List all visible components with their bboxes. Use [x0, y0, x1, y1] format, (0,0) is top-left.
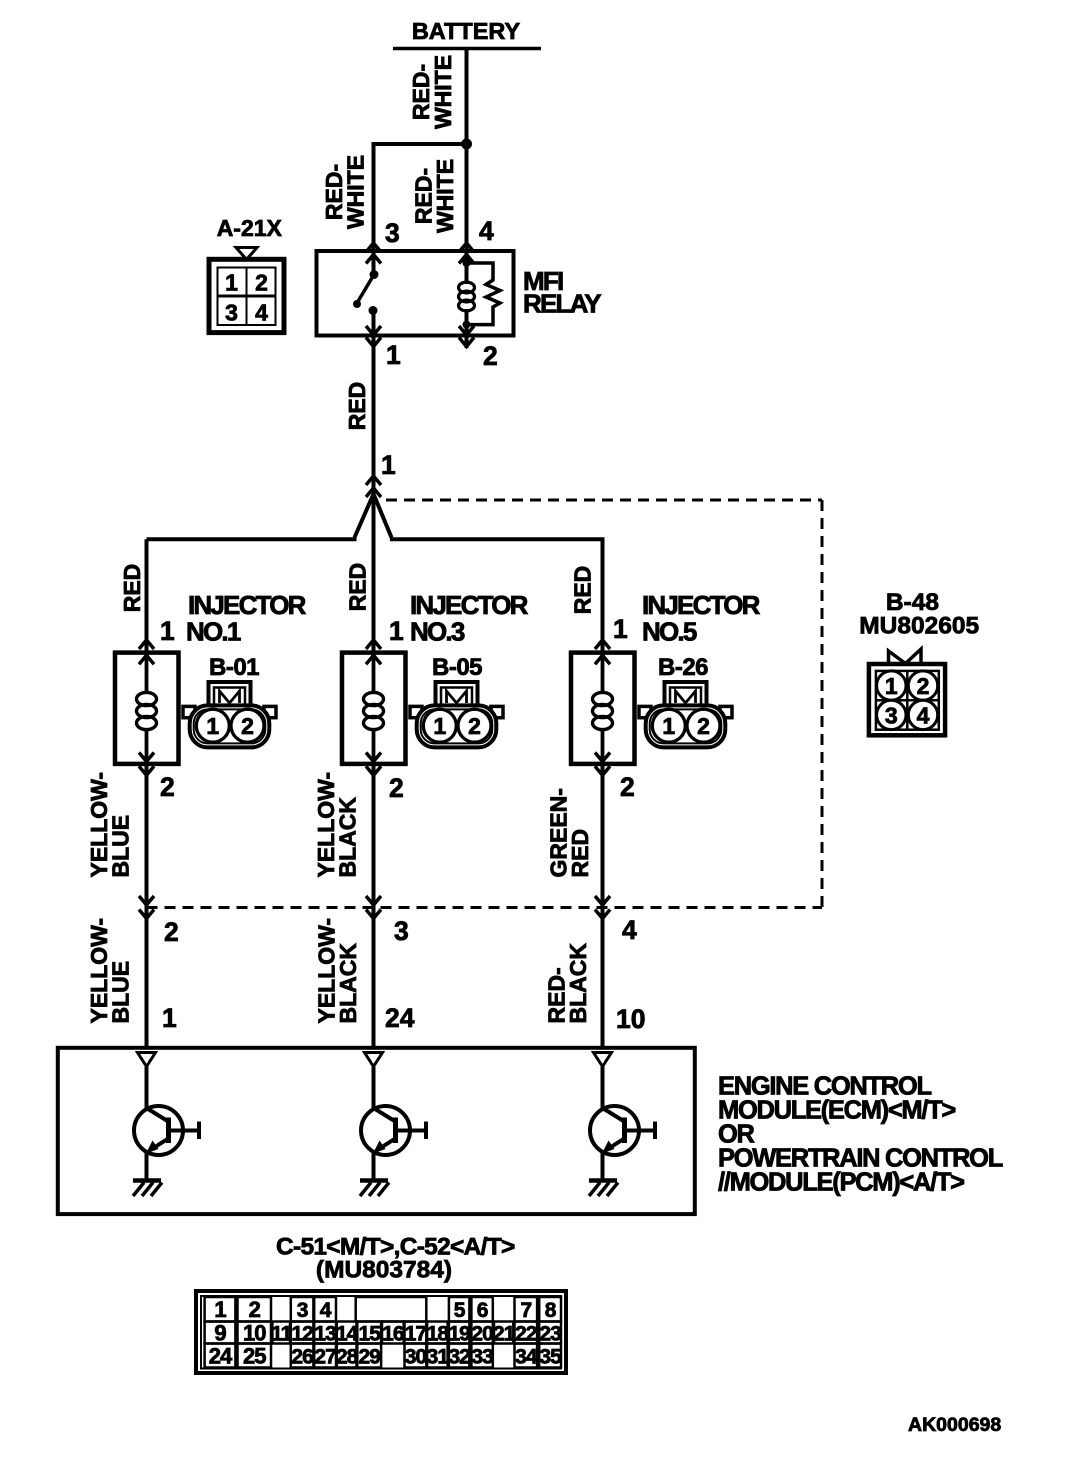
connector B-48 body [869, 664, 945, 735]
svg-text:22: 22 [515, 1322, 537, 1345]
dashed boundary top edge [386, 499, 822, 502]
wire label RED-WHITE (pin 4 branch) [411, 159, 459, 233]
svg-text:2: 2 [483, 341, 498, 371]
connector B-48 pin 2 [908, 671, 937, 700]
arrow into relay pin 3 [366, 243, 381, 264]
arrow out of relay pin 2 [459, 326, 474, 348]
splice branch diagonal right [374, 494, 392, 538]
svg-text:RED: RED [345, 563, 371, 612]
svg-text:1: 1 [386, 340, 401, 370]
svg-text:2: 2 [160, 772, 175, 802]
wire injector NO.3 pin 2 down to ECM [372, 764, 376, 1048]
bus wire to injector NO.5 [390, 537, 605, 541]
svg-text:9: 9 [214, 1320, 226, 1345]
wire bus to injector NO.3 RED [372, 497, 376, 653]
wire label YELLOW-BLUE [86, 772, 134, 878]
svg-text:BLACK: BLACK [565, 943, 591, 1024]
wire label RED-WHITE (pin 3 branch) [321, 155, 369, 229]
wire injector NO.5 pin 2 down to ECM [601, 764, 605, 1048]
arrow out of injector NO.1 [139, 753, 154, 776]
svg-text:RED: RED [344, 382, 370, 431]
svg-text:3: 3 [885, 702, 898, 728]
svg-text:34: 34 [515, 1345, 538, 1368]
svg-text:32: 32 [448, 1345, 470, 1368]
wire label RED-BLACK [544, 943, 592, 1024]
svg-text:WHITE: WHITE [432, 159, 458, 233]
arrow into injector NO.1 [139, 640, 154, 664]
svg-text:2: 2 [241, 713, 254, 739]
dashed boundary bottom edge [147, 906, 823, 909]
arrows at harness boundary (NO.5) [595, 896, 610, 919]
svg-text:12: 12 [291, 1322, 313, 1345]
ground (Q2 emitter) [360, 1181, 389, 1197]
transistor Q1 (driver) [134, 1053, 199, 1181]
svg-text:33: 33 [471, 1345, 493, 1368]
injector NO.5 body box [571, 653, 635, 764]
injector NO.3 label [410, 590, 529, 647]
svg-text:2: 2 [468, 713, 481, 739]
connector C-51/C-52 pin table [196, 1291, 566, 1373]
svg-text:1: 1 [389, 616, 404, 646]
svg-text:14: 14 [336, 1322, 359, 1345]
svg-text:NO.1: NO.1 [186, 617, 241, 647]
injector NO.5 label [642, 590, 761, 647]
relay coil pins 4-2 [459, 251, 475, 336]
svg-text:1: 1 [662, 713, 675, 739]
connector B-26 icon [639, 682, 732, 747]
transistor Q3 (driver) [590, 1053, 655, 1181]
svg-text:18: 18 [427, 1322, 450, 1345]
svg-text:7: 7 [520, 1299, 531, 1322]
wire bus to injector NO.5 RED [601, 539, 605, 652]
wire label YELLOW-BLACK [314, 918, 362, 1024]
svg-text:WHITE: WHITE [430, 55, 456, 129]
svg-text:10: 10 [616, 1004, 645, 1034]
svg-text:31: 31 [427, 1345, 450, 1368]
arrow into relay pin 4 [459, 243, 474, 264]
svg-text:4: 4 [320, 1299, 332, 1322]
svg-text:A-21X: A-21X [217, 215, 283, 241]
svg-text:4: 4 [255, 300, 268, 326]
svg-text:35: 35 [539, 1345, 562, 1368]
svg-text:1: 1 [433, 713, 446, 739]
injector NO.1 label [186, 590, 307, 647]
ground (Q3 emitter) [589, 1181, 618, 1197]
svg-text:3: 3 [225, 300, 238, 326]
ECM label text [718, 1073, 1003, 1197]
svg-text:RED: RED [567, 829, 593, 878]
svg-text:2: 2 [164, 917, 179, 947]
injector NO.1 solenoid coil [137, 653, 157, 764]
arrows at splice node 1 [366, 476, 381, 497]
svg-text:MU802605: MU802605 [859, 613, 979, 640]
svg-text:3: 3 [394, 916, 409, 946]
wire battery to junction RED-WHITE [465, 49, 469, 147]
svg-text:11: 11 [271, 1322, 293, 1345]
svg-text:26: 26 [291, 1345, 313, 1368]
splice branch diagonal left [355, 494, 374, 538]
arrow out of injector NO.3 [366, 753, 381, 776]
svg-text:RED: RED [570, 566, 596, 615]
arrow out of relay pin 1 [366, 326, 381, 347]
wire down to relay pin 3 RED-WHITE [372, 144, 376, 251]
svg-text:20: 20 [471, 1322, 493, 1345]
svg-text:13: 13 [314, 1322, 336, 1345]
relay resistor parallel with coil [467, 263, 501, 325]
svg-text:INJECTOR: INJECTOR [188, 590, 307, 620]
svg-text:AK000698: AK000698 [908, 1414, 1001, 1436]
svg-text:1: 1 [160, 616, 175, 646]
svg-text:24: 24 [209, 1343, 233, 1368]
wire label YELLOW-BLACK [313, 772, 361, 878]
svg-text:WHITE: WHITE [343, 155, 369, 229]
svg-text:BLACK: BLACK [335, 943, 361, 1024]
svg-text:3: 3 [297, 1299, 308, 1322]
svg-text:B-05: B-05 [432, 654, 482, 681]
wire label YELLOW-BLUE [86, 918, 134, 1024]
svg-text:10: 10 [243, 1320, 266, 1345]
battery bus bar [393, 47, 541, 51]
arrows at harness boundary (NO.1) [139, 896, 154, 919]
injector NO.5 solenoid coil [593, 653, 613, 764]
svg-text:30: 30 [405, 1345, 427, 1368]
svg-text:4: 4 [917, 702, 930, 728]
wire label RED-WHITE (battery feed) [408, 55, 456, 129]
relay switch contact pins 3-1 [353, 251, 379, 336]
relay label MFI RELAY [523, 266, 601, 319]
svg-text:4: 4 [622, 915, 637, 945]
svg-text:21: 21 [493, 1322, 516, 1345]
svg-text:15: 15 [359, 1322, 382, 1345]
arrow out of injector NO.5 [595, 753, 610, 776]
svg-text:16: 16 [382, 1322, 404, 1345]
svg-text:2: 2 [389, 773, 404, 803]
wire jumper junction to pin 3 branch [372, 142, 467, 146]
svg-text://MODULE(PCM)<A/T>: //MODULE(PCM)<A/T> [718, 1169, 964, 1197]
transistor Q2 (driver) [361, 1053, 426, 1181]
junction splice node [461, 139, 472, 150]
wire down to relay pin 4 RED-WHITE [465, 144, 469, 251]
svg-text:24: 24 [385, 1003, 415, 1033]
svg-text:2: 2 [255, 270, 268, 296]
injector NO.1 body box [115, 653, 179, 764]
svg-text:1: 1 [885, 673, 898, 699]
svg-text:6: 6 [477, 1299, 488, 1322]
svg-text:17: 17 [405, 1322, 427, 1345]
ground (Q1 emitter) [133, 1181, 162, 1197]
svg-text:INJECTOR: INJECTOR [410, 590, 529, 620]
svg-text:1: 1 [225, 270, 238, 296]
arrow into injector NO.5 [595, 640, 610, 664]
svg-text:BLUE: BLUE [108, 961, 134, 1024]
arrow into injector NO.3 [366, 640, 381, 664]
relay MFI RELAY box [317, 251, 514, 336]
svg-text:23: 23 [539, 1322, 561, 1345]
svg-text:BLUE: BLUE [108, 815, 134, 878]
svg-text:1: 1 [381, 450, 396, 480]
svg-text:8: 8 [545, 1299, 557, 1322]
wire relay pin 1 to splice node 1 RED [372, 336, 376, 498]
svg-text:RELAY: RELAY [523, 289, 601, 319]
svg-text:27: 27 [314, 1345, 336, 1368]
injector NO.3 body box [342, 653, 406, 764]
svg-text:29: 29 [359, 1345, 381, 1368]
svg-text:25: 25 [243, 1343, 266, 1368]
svg-text:INJECTOR: INJECTOR [642, 590, 761, 620]
svg-text:2: 2 [917, 673, 930, 699]
svg-text:1: 1 [214, 1297, 226, 1322]
connector A-21X triangle marker [236, 248, 257, 260]
connector B-01 icon [183, 682, 276, 747]
svg-text:RED: RED [119, 564, 145, 613]
wire bus to injector NO.1 RED [145, 539, 149, 652]
ECM / PCM module box [58, 1048, 695, 1214]
svg-text:19: 19 [448, 1322, 470, 1345]
svg-text:NO.3: NO.3 [410, 617, 465, 647]
arrows at harness boundary (NO.3) [366, 896, 381, 919]
svg-text:2: 2 [697, 713, 710, 739]
connector B-48 pin 3 [877, 700, 906, 729]
svg-text:BATTERY: BATTERY [412, 18, 521, 44]
wire label GREEN-RED [546, 788, 594, 877]
svg-text:BLACK: BLACK [335, 797, 361, 878]
svg-text:(MU803784): (MU803784) [316, 1257, 452, 1284]
svg-text:3: 3 [385, 218, 400, 248]
dashed boundary right edge [821, 500, 824, 908]
svg-text:1: 1 [613, 614, 628, 644]
connector A-21X body [209, 259, 284, 332]
svg-text:B-26: B-26 [658, 654, 708, 681]
svg-text:NO.5: NO.5 [642, 617, 697, 647]
svg-text:1: 1 [206, 713, 219, 739]
connector B-48 pin 1 [877, 671, 906, 700]
svg-text:2: 2 [620, 772, 635, 802]
svg-text:4: 4 [479, 216, 494, 246]
svg-text:1: 1 [162, 1003, 177, 1033]
bus wire to injector NO.1 [147, 537, 357, 541]
injector NO.3 solenoid coil [364, 653, 384, 764]
svg-text:28: 28 [336, 1345, 359, 1368]
svg-text:2: 2 [249, 1297, 261, 1322]
wire injector NO.1 pin 2 down to ECM [145, 764, 149, 1048]
connector B-48 notch marker [889, 649, 922, 665]
connector B-05 icon [410, 682, 503, 747]
svg-text:5: 5 [454, 1299, 466, 1322]
connector B-48 pin 4 [908, 700, 937, 729]
svg-text:B-01: B-01 [209, 654, 259, 681]
